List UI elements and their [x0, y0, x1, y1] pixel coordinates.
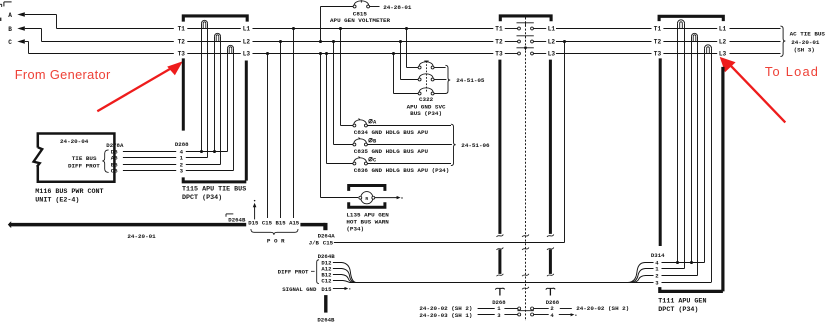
bus 24-20-01 thick bar right segment — [300, 223, 325, 227]
connector D264A label — [318, 233, 336, 240]
wire phase row — [663, 41, 717, 43]
wire (T115 internal) — [187, 41, 241, 43]
bundle fan-out to D314 pin 2 — [632, 276, 654, 283]
pin L2 label (T115) — [243, 39, 251, 46]
brace for D278A pins — [102, 150, 108, 173]
pin 2 (D314) — [655, 273, 659, 280]
svg-text:D288: D288 — [175, 141, 189, 148]
pin L2 label (T111) — [719, 39, 727, 46]
wire (T115 internal) — [187, 28, 241, 30]
lamp L135 bottom bracket — [349, 202, 385, 207]
pin 2 (D288) — [180, 162, 184, 169]
unit label M116 — [35, 188, 103, 205]
wire L1 to C834 — [341, 29, 354, 126]
svg-text:APU GEN VOLTMETER: APU GEN VOLTMETER — [330, 17, 391, 24]
svg-text:D264B: D264B — [317, 317, 335, 324]
pin 3 (D288) — [180, 168, 184, 175]
clipped character at left edge — [0, 18, 1, 21]
junction dots on D314 pin4 wire — [676, 261, 693, 264]
contactor left bar upper segment — [498, 60, 501, 234]
label SIGNAL GND — [282, 286, 317, 293]
connector D288 label — [175, 141, 189, 148]
wire C815 to L2 — [321, 7, 354, 42]
wire D288 pin 3 — [186, 170, 234, 172]
svg-text:T111 APU GEN: T111 APU GEN — [658, 298, 706, 306]
svg-text:L1: L1 — [548, 26, 556, 33]
svg-text:24-20-01: 24-20-01 — [127, 233, 156, 240]
label DIFF PROT with tick — [278, 269, 315, 276]
contactor T115 APU TIE BUS DPCT enclosure top bracket — [183, 16, 247, 22]
pin T3 label (T111) — [654, 51, 662, 58]
wire D288 pin 2 — [186, 164, 221, 166]
circuit breaker C322 phase 1 — [418, 62, 434, 69]
contact pair (middle contactor) — [505, 52, 546, 55]
svg-text:C322: C322 — [419, 96, 434, 103]
svg-text:C: C — [8, 39, 12, 46]
pin 1 (D268) — [497, 305, 501, 312]
pin 4 (D288) — [180, 149, 184, 156]
break squiggle on dashed line at D268 — [522, 287, 529, 289]
contactor T111 APU GEN DPCT top bracket — [659, 16, 723, 21]
pin A12 (D264B) — [321, 266, 332, 273]
wire M116 to T115 — [123, 170, 176, 172]
circuit breaker C834 — [353, 119, 367, 127]
svg-text:TIE BUS: TIE BUS — [72, 155, 97, 162]
svg-text:DPCT (P34): DPCT (P34) — [658, 306, 698, 314]
wire D314 pin4 to loops — [662, 262, 705, 264]
wire contact to pin 2 — [534, 308, 549, 310]
contactor T111 left bar — [659, 58, 662, 246]
break squiggles at y=236 — [497, 235, 554, 237]
pin L3 label (T115) — [243, 51, 251, 58]
C322 linkage T-bar and dashed link — [424, 61, 428, 92]
pin C12 (D264B) — [321, 278, 332, 285]
wire C835 to bracket — [367, 144, 452, 146]
svg-text:DIFF PROT: DIFF PROT — [68, 162, 100, 169]
pin L1 label (T115) — [243, 26, 251, 33]
circuit breaker C836 — [353, 157, 367, 165]
svg-text:L3: L3 — [548, 51, 556, 58]
wire L135 output with arrow — [375, 196, 403, 199]
pin D15 (D264B) — [321, 286, 332, 293]
phase label C — [369, 157, 377, 163]
svg-text:L3: L3 — [719, 51, 727, 58]
wire C12 into bundle — [333, 281, 350, 283]
contactor T111 right bar — [721, 67, 724, 292]
label L135 APU GEN HOT BUS WARN (P34) — [346, 211, 389, 232]
wire phase B to T2 — [25, 29, 174, 42]
wire D314 pin3 — [662, 282, 712, 284]
T-cap bus stubs above D268 — [495, 288, 504, 295]
contact circles row 2 — [518, 313, 534, 316]
incomplete-unit zigzag on M116 box — [34, 147, 43, 166]
wire to pin 3 — [478, 314, 495, 316]
svg-text:A15: A15 — [289, 219, 300, 226]
junction dot on T3 linkage — [524, 46, 527, 49]
connector D264B upper label — [228, 217, 246, 224]
label C815 — [353, 10, 368, 17]
wire contact to pin 4 — [534, 314, 549, 316]
pin 1 (D288) — [180, 155, 184, 162]
off-page box corner (top-left) — [0, 2, 12, 7]
pin T3 label (middle contactor) — [495, 51, 503, 58]
svg-text:24-20-01: 24-20-01 — [791, 39, 820, 46]
wire bundle to D314 — [350, 282, 632, 284]
pins D15 C15 B15 A15 — [248, 219, 300, 226]
right bar middle segment — [549, 250, 552, 274]
connector D264B label (middle) — [318, 253, 336, 260]
svg-text:T2: T2 — [654, 39, 662, 46]
pin L3 label (middle contactor) — [548, 51, 556, 58]
unit label T115 — [182, 186, 246, 203]
red arrow to T111 L3 — [720, 57, 786, 123]
wire D12 into bundle — [333, 263, 356, 283]
CT loop T111 phase 3 — [705, 45, 712, 282]
label 24-20-03 (SH 1) — [419, 312, 472, 319]
svg-text:B: B — [8, 26, 12, 33]
contactor T115 right bar — [245, 61, 248, 181]
svg-text:24-51-06: 24-51-06 — [461, 142, 490, 149]
label 24-28-01 — [383, 4, 412, 11]
label AC TIE BUS 24-20-01 (SH 3) — [790, 31, 826, 54]
svg-text:From Generator: From Generator — [15, 67, 111, 82]
contactor right bar upper segment — [549, 60, 552, 234]
wire (T115 internal) — [187, 53, 241, 55]
svg-text:T1: T1 — [654, 26, 662, 33]
svg-text:3: 3 — [180, 168, 184, 175]
svg-text:D15: D15 — [248, 219, 259, 226]
svg-text:B15: B15 — [276, 219, 287, 226]
CT loop T111 phase 2 — [692, 33, 698, 275]
connector D268 left label — [492, 299, 506, 306]
svg-text:DIFF PROT: DIFF PROT — [278, 269, 309, 276]
wire L2 to B15 pin — [280, 42, 282, 219]
pin 3 (D268) — [497, 312, 501, 319]
label DIFF PROT — [68, 162, 100, 169]
CT loop T115 phase 1 — [202, 20, 208, 157]
svg-text:L1: L1 — [719, 26, 727, 33]
pin 4 (D314) — [655, 260, 659, 267]
pin T2 label (middle contactor) — [495, 39, 503, 46]
node A off-page arrow — [8, 12, 25, 19]
pin 3 (D314) — [655, 280, 659, 287]
wire L2 to C835 — [334, 42, 354, 145]
svg-text:HOT BUS WARN: HOT BUS WARN — [346, 219, 389, 226]
svg-text:24-20-02 (SH 2): 24-20-02 (SH 2) — [419, 305, 472, 312]
wire SIGNAL GND D15 arrow — [333, 287, 351, 290]
label P O R — [267, 238, 285, 245]
brace AC TIE BUS — [780, 26, 785, 56]
break squiggles at y=273.6 — [497, 274, 554, 276]
svg-text:C15: C15 — [323, 240, 334, 247]
wire M116 to T115 — [123, 151, 176, 153]
wire phase row — [663, 28, 717, 30]
wire D288 pin 1 — [186, 157, 208, 159]
wire C322-3 to bracket — [434, 93, 446, 95]
wire phase row — [253, 41, 494, 43]
svg-text:A6: A6 — [111, 155, 118, 162]
wire pin4 arrow — [559, 313, 577, 316]
connector D314 label — [651, 252, 665, 259]
label 24-51-05 — [456, 77, 485, 84]
svg-text:J/B: J/B — [309, 240, 320, 247]
contact circles row 1 with blade — [517, 307, 534, 311]
contactor APU GND SVC top bracket — [500, 16, 551, 21]
svg-text:DPCT (P34): DPCT (P34) — [182, 194, 222, 202]
svg-text:T2: T2 — [495, 39, 503, 46]
label C835 GND HDLG BUS APU — [354, 148, 429, 155]
wire L3 to C15 pin — [267, 54, 269, 219]
wire D288 pin 4 to CT loops — [186, 151, 228, 153]
svg-text:1: 1 — [180, 155, 184, 162]
wire B12 into bundle — [333, 275, 354, 283]
circuit breaker C835 — [353, 138, 367, 146]
bundle fan-out to D314 pin 1 — [630, 269, 654, 283]
wire C322-2 to bracket — [434, 79, 446, 81]
svg-text:C836 GND HDLG BUS APU (P34): C836 GND HDLG BUS APU (P34) — [354, 167, 449, 174]
svg-text:SIGNAL GND: SIGNAL GND — [282, 286, 317, 293]
annotation From Generator — [15, 67, 111, 82]
brace P O R under pins — [251, 229, 298, 235]
wire to pin 1 — [478, 308, 495, 310]
pin T2 label (T111) — [654, 39, 662, 46]
contactor T115 bottom bar — [183, 177, 246, 182]
bracket 24-51-05 — [445, 65, 450, 93]
connector D264B bottom label — [317, 317, 335, 324]
wire phase row — [253, 53, 494, 55]
svg-text:24-51-05: 24-51-05 — [456, 77, 485, 84]
contact linkage bar — [517, 36, 534, 39]
svg-text:24-28-01: 24-28-01 — [383, 4, 412, 11]
contactor T111 bottom bar — [660, 287, 723, 291]
svg-text:L1: L1 — [243, 26, 251, 33]
svg-text:24-20-02 (SH 2): 24-20-02 (SH 2) — [576, 305, 629, 312]
connector D268 right label — [546, 299, 560, 306]
svg-text:UNIT (E2-4): UNIT (E2-4) — [35, 197, 79, 205]
svg-text:D15: D15 — [321, 286, 332, 293]
circuit breaker C815 APU GEN VOLTMETER — [353, 0, 369, 8]
pin T1 label (T111) — [654, 26, 662, 33]
CT loop T115 phase 3 — [228, 45, 234, 170]
pin T2 label (T115) — [178, 39, 186, 46]
lamp L135 APU GEN HOT BUS WARN top bracket — [349, 186, 385, 191]
svg-text:R: R — [365, 196, 368, 202]
wire L3 to L135 lamp — [321, 54, 359, 198]
pin L2 label (middle contactor) — [548, 39, 556, 46]
svg-text:AC TIE BUS: AC TIE BUS — [790, 31, 826, 38]
bus segment to D264B bottom — [324, 295, 327, 313]
svg-text:T2: T2 — [178, 39, 186, 46]
bus 24-20-01 turn down to D264A — [323, 223, 327, 230]
CT loop T115 phase 2 — [215, 33, 221, 164]
pin 1 (D314) — [655, 266, 659, 273]
wire L2 to C322 breaker 2 — [401, 42, 419, 80]
contact pair (middle contactor) — [505, 40, 546, 43]
bus 24-20-01 thick bar left segment — [9, 223, 246, 227]
phase label B — [369, 138, 377, 144]
svg-text:C15: C15 — [262, 219, 273, 226]
label 24-20-02 (SH 2) right — [576, 305, 629, 312]
wire D314 pin2 — [662, 275, 698, 277]
pin B6 (D278A) — [111, 162, 118, 169]
wire L1 to A15 pin — [293, 29, 295, 219]
pin L3 label (T111) — [719, 51, 727, 58]
lamp L135 symbol — [359, 192, 375, 204]
label APU GEN VOLTMETER — [330, 17, 391, 24]
wire phase row — [556, 41, 652, 43]
break squiggles at y=248.5 — [497, 248, 554, 250]
wire L3 to C836 — [327, 54, 354, 164]
wire M116 to T115 — [123, 157, 176, 159]
pin T1 label (T115) — [178, 26, 186, 33]
pin L1 label (middle contactor) — [548, 26, 556, 33]
svg-text:D264A: D264A — [318, 233, 336, 240]
wire pin2 dash — [560, 308, 572, 310]
pin T3 label (T115) — [178, 51, 186, 58]
svg-text:T3: T3 — [654, 51, 662, 58]
circuit breaker C322 phase 3 — [418, 88, 434, 95]
svg-text:To Load: To Load — [765, 64, 819, 79]
svg-text:24-20-04: 24-20-04 — [60, 138, 89, 145]
red arrow to T115 — [97, 61, 183, 111]
bundle fan-out to D314 pin 4 — [628, 263, 654, 283]
svg-text:L3: L3 — [243, 51, 251, 58]
wire phase row — [556, 28, 652, 30]
pin A6 (D278A) — [111, 155, 118, 162]
svg-text:BUS (P34): BUS (P34) — [410, 110, 442, 117]
svg-text:A: A — [8, 12, 12, 19]
wire phase row — [730, 41, 781, 43]
label TIE BUS — [72, 155, 97, 162]
wire phase row — [253, 28, 494, 30]
wire phase row — [556, 53, 652, 55]
unit M116 BUS PWR CONT box — [38, 134, 115, 182]
svg-text:T3: T3 — [178, 51, 186, 58]
wire phase C to T3 — [25, 42, 174, 54]
left bar middle segment — [498, 250, 501, 274]
wire D314 pin1 — [662, 268, 685, 270]
label C322 APU GND SVC BUS (P34) — [407, 96, 446, 117]
bracket 24-51-06 — [451, 124, 456, 165]
label 24-51-06 — [461, 142, 490, 149]
wire C322-1 to bracket — [434, 67, 446, 69]
circuit breaker C322 phase 2 — [418, 74, 434, 81]
svg-text:T3: T3 — [495, 51, 503, 58]
connector D278A label — [106, 142, 124, 149]
wire pin3 to contact — [504, 314, 517, 316]
contact pair (middle contactor) — [505, 27, 546, 30]
node C off-page arrow — [8, 39, 25, 46]
T-cap bus stub above D268 right — [546, 288, 555, 295]
label C834 GND HDLG BUS APU — [354, 129, 429, 136]
svg-text:C834 GND HDLG BUS APU: C834 GND HDLG BUS APU — [354, 129, 429, 136]
svg-text:T1: T1 — [178, 26, 186, 33]
wire phase A to T1 — [25, 15, 174, 29]
mechanism dashed line — [525, 18, 527, 322]
wire L1 to C322 breaker 1 — [407, 29, 419, 68]
wire C15 to L2 — [334, 42, 565, 243]
wire C836 to bracket — [367, 163, 451, 165]
junction dots on phase rows — [266, 27, 566, 55]
junction dots on D288 pin 4 wire — [200, 150, 216, 153]
wire C834 to bracket — [367, 125, 451, 127]
svg-text:D314: D314 — [651, 252, 665, 259]
label 24-20-01 — [127, 233, 156, 240]
pin 4 (D268) — [550, 312, 554, 319]
svg-text:M116 BUS PWR CONT: M116 BUS PWR CONT — [35, 188, 103, 196]
svg-text:24-20-03 (SH 1): 24-20-03 (SH 1) — [419, 312, 472, 319]
svg-text:T115 APU TIE BUS: T115 APU TIE BUS — [182, 186, 246, 194]
pin D6 (D278A) — [111, 149, 118, 156]
svg-text:T1: T1 — [495, 26, 503, 33]
annotation To Load — [765, 64, 819, 79]
label C836 GND HDLG BUS APU (P34) — [354, 167, 449, 174]
svg-text:L2: L2 — [243, 39, 251, 46]
svg-text:C6: C6 — [111, 168, 118, 175]
svg-text:P O R: P O R — [267, 238, 285, 245]
pin C6 (D278A) — [111, 168, 118, 175]
label 24-20-04 inside M116 — [60, 138, 89, 145]
wire phase row — [730, 53, 781, 55]
svg-text:(SH 3): (SH 3) — [794, 46, 815, 53]
phase label A — [369, 119, 377, 125]
node B off-page arrow — [8, 26, 25, 33]
bus 24-20-01 left arrow tick — [8, 221, 11, 228]
pin 2 (D268) — [550, 305, 554, 312]
pin D12 (D264B) — [321, 260, 332, 267]
contact linkage bar — [517, 23, 534, 26]
pin L1 label (T111) — [719, 26, 727, 33]
CT loop T111 phase 1 — [678, 20, 685, 269]
svg-text:L2: L2 — [719, 39, 727, 46]
wire L3 to C322 breaker 3 — [394, 54, 419, 94]
wire M116 to T115 — [123, 164, 176, 166]
label 24-20-02 (SH 2) left — [419, 305, 472, 312]
connector D264B upper corner mark — [226, 214, 233, 217]
svg-text:L135 APU GEN: L135 APU GEN — [346, 211, 389, 218]
contact linkage bar — [517, 48, 534, 51]
wire phase row — [730, 28, 781, 30]
pin B12 (D264B) — [321, 272, 332, 279]
bundle fan-out to D314 pin 3 — [631, 282, 653, 284]
pin T1 label (middle contactor) — [495, 26, 503, 33]
svg-text:C835 GND HDLG BUS APU: C835 GND HDLG BUS APU — [354, 148, 429, 155]
bracket for D264B pins — [317, 260, 319, 284]
wire pin1 to contact — [504, 308, 517, 310]
up arrow at D15 hot bus — [253, 200, 257, 220]
contactor T115 left bar — [182, 58, 185, 130]
svg-text:D264B: D264B — [228, 217, 246, 224]
label J/B C15 — [309, 240, 334, 247]
wire phase row — [663, 53, 717, 55]
unit label T111 — [658, 298, 706, 315]
wire C815 right stub — [370, 6, 380, 8]
svg-text:L2: L2 — [548, 39, 556, 46]
wire A12 into bundle — [333, 269, 355, 283]
svg-text:C12: C12 — [321, 278, 332, 285]
svg-text:(P34): (P34) — [346, 226, 364, 233]
